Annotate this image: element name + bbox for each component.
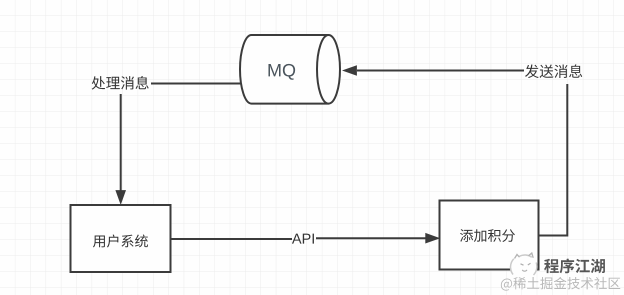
cylinder MQ (message queue) [240, 35, 340, 104]
wire 用户系统 to API label [171, 238, 293, 240]
wire 处理消息 label down to 用户系统 (arrow) [120, 94, 122, 191]
box 添加积分 (add points) [440, 201, 539, 270]
wire MQ to 处理消息 label [151, 83, 241, 85]
label 发送消息 (send message) [525, 64, 582, 78]
watermark logo icon 程序江湖 [511, 253, 537, 280]
watermark text @稀土掘金技术社区 [501, 277, 620, 291]
label API [292, 234, 314, 244]
wire 发送消息 label to MQ (arrow) [357, 70, 524, 72]
watermark text 程序江湖 [544, 259, 605, 274]
label 处理消息 (process message) [92, 76, 149, 90]
box 用户系统 (user system) [71, 205, 171, 272]
wire 添加积分 up to 发送消息 label [539, 84, 568, 236]
wire API label to 添加积分 (arrow) [316, 237, 426, 239]
